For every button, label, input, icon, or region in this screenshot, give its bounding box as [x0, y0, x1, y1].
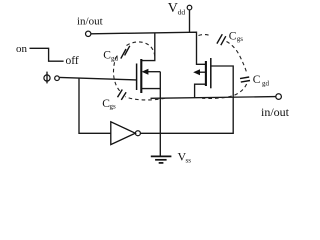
svg-text:gs: gs: [110, 103, 117, 111]
svg-text:gd: gd: [111, 55, 119, 63]
svg-text:in/out: in/out: [261, 105, 290, 119]
svg-text:in/out: in/out: [77, 16, 103, 28]
svg-text:gs: gs: [237, 35, 244, 43]
svg-text:on: on: [16, 43, 28, 55]
svg-text:gd: gd: [262, 80, 270, 88]
svg-text:off: off: [66, 55, 79, 67]
svg-text:dd: dd: [178, 8, 186, 17]
svg-text:V: V: [168, 1, 178, 16]
svg-text:C: C: [229, 31, 237, 43]
svg-text:ss: ss: [186, 157, 192, 165]
svg-text:C: C: [103, 50, 111, 62]
svg-text:C: C: [253, 74, 261, 86]
